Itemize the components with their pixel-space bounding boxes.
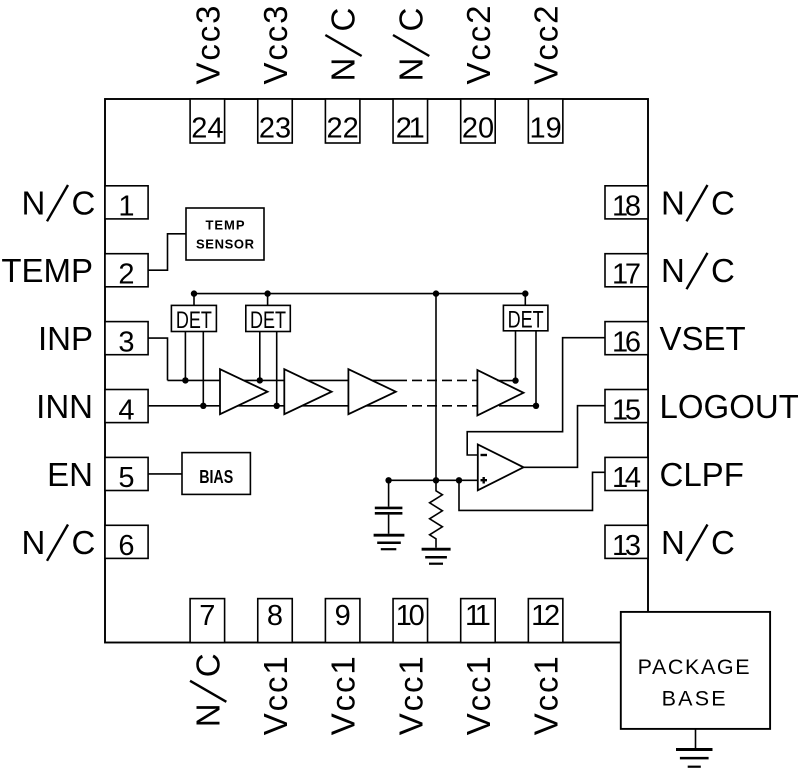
svg-text:1: 1 <box>118 191 134 223</box>
svg-text:7: 7 <box>199 600 215 632</box>
svg-text:LOGOUT: LOGOUT <box>660 388 798 425</box>
svg-text:18: 18 <box>612 191 641 223</box>
svg-text:Vcc1: Vcc1 <box>528 656 565 735</box>
svg-text:DET: DET <box>250 307 286 334</box>
svg-text:10: 10 <box>396 600 425 632</box>
svg-text:9: 9 <box>335 600 351 632</box>
svg-text:Vcc1: Vcc1 <box>257 656 294 735</box>
svg-text:BIAS: BIAS <box>199 466 233 487</box>
svg-text:Vcc2: Vcc2 <box>460 6 497 85</box>
svg-text:Vcc3: Vcc3 <box>257 6 294 85</box>
svg-text:SENSOR: SENSOR <box>196 237 255 252</box>
svg-text:INN: INN <box>36 388 93 425</box>
svg-text:5: 5 <box>118 462 134 494</box>
svg-text:11: 11 <box>465 600 491 632</box>
svg-text:Vcc1: Vcc1 <box>325 656 362 735</box>
svg-text:6: 6 <box>118 530 134 562</box>
svg-text:TEMP: TEMP <box>1 252 93 289</box>
svg-text:VSET: VSET <box>660 320 746 357</box>
svg-text:24: 24 <box>191 112 223 144</box>
svg-text:12: 12 <box>531 600 560 632</box>
svg-text:DET: DET <box>508 306 544 333</box>
svg-text:17: 17 <box>612 259 641 291</box>
svg-text:DET: DET <box>176 307 212 334</box>
svg-text:15: 15 <box>612 394 641 426</box>
svg-text:8: 8 <box>267 600 283 632</box>
svg-text:23: 23 <box>259 112 291 144</box>
svg-text:19: 19 <box>529 112 561 144</box>
svg-text:Vcc1: Vcc1 <box>460 656 497 735</box>
svg-text:3: 3 <box>118 326 134 358</box>
svg-text:PACKAGE: PACKAGE <box>638 655 750 679</box>
svg-text:TEMP: TEMP <box>206 218 245 233</box>
svg-text:INP: INP <box>38 320 93 357</box>
svg-text:21: 21 <box>396 112 425 144</box>
svg-text:Vcc1: Vcc1 <box>392 656 429 735</box>
svg-text:13: 13 <box>612 530 641 562</box>
svg-text:4: 4 <box>118 394 134 426</box>
svg-text:14: 14 <box>612 462 641 494</box>
svg-text:Vcc3: Vcc3 <box>189 6 226 85</box>
svg-text:Vcc2: Vcc2 <box>528 6 565 85</box>
svg-text:22: 22 <box>327 112 359 144</box>
svg-text:EN: EN <box>47 456 93 493</box>
svg-text:16: 16 <box>612 326 641 358</box>
svg-text:2: 2 <box>118 259 134 291</box>
svg-text:CLPF: CLPF <box>660 456 744 493</box>
svg-text:20: 20 <box>462 112 494 144</box>
